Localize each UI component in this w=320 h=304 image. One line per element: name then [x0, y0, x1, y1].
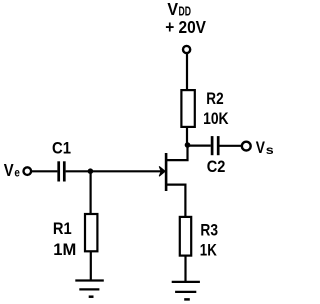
svg-text:V: V [4, 160, 14, 180]
svg-text:R1: R1 [53, 219, 72, 238]
svg-text:C1: C1 [52, 139, 71, 158]
wire R1 to ground [90, 252, 92, 281]
node drain junction [185, 142, 191, 148]
label Vs [256, 138, 274, 157]
node gate junction [88, 168, 94, 174]
wire Ve to C1 [32, 170, 57, 172]
wire R2 to drain node [186, 128, 188, 146]
ground under R3 [172, 282, 200, 300]
terminal VDD [183, 46, 190, 53]
wire C2 to Vs [220, 145, 242, 147]
terminal Ve [24, 167, 32, 175]
ground under R1 [75, 281, 104, 297]
wire gate node to R1 [89, 171, 91, 214]
wire source lead [165, 185, 185, 217]
resistor R3 [180, 217, 191, 256]
svg-text:+ 20V: + 20V [165, 17, 206, 37]
resistor R1 [85, 214, 97, 251]
svg-text:R3: R3 [200, 221, 218, 240]
wire VDD to R2 [186, 53, 188, 90]
svg-text:C2: C2 [207, 157, 226, 176]
wire drain lead [165, 145, 188, 160]
wire R3 to ground [184, 256, 186, 282]
transistor Q1 gate arrow [159, 166, 165, 176]
capacitor C2 [212, 136, 218, 155]
wire node to C2 [188, 145, 211, 147]
svg-text:10K: 10K [203, 109, 229, 128]
label Ve [4, 160, 20, 180]
capacitor C1 [59, 161, 65, 181]
svg-text:1K: 1K [200, 241, 218, 260]
svg-text:1M: 1M [53, 240, 76, 259]
svg-text:R2: R2 [206, 89, 223, 108]
label VDD [167, 0, 191, 19]
resistor R2 [181, 90, 194, 127]
svg-text:s: s [266, 143, 273, 157]
svg-text:V: V [256, 138, 266, 157]
transistor Q1 channel bar [165, 153, 168, 191]
wire C1 to gate [66, 170, 161, 172]
svg-text:e: e [14, 165, 20, 179]
terminal Vs [242, 142, 251, 151]
